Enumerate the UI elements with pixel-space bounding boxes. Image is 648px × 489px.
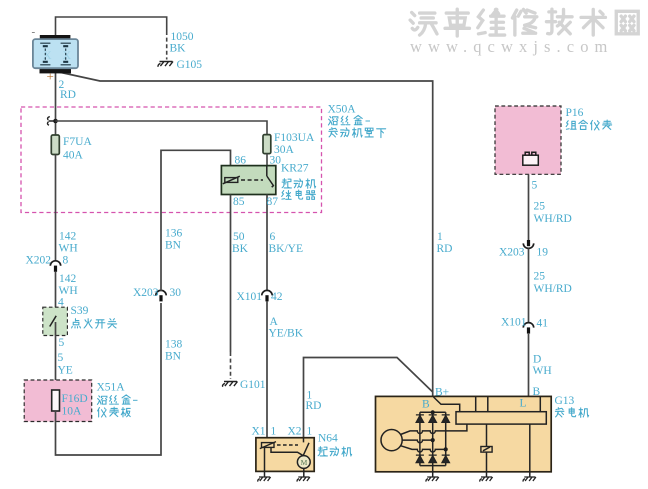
svg-text:X202: X202 xyxy=(26,255,52,267)
generator ground stub 1 xyxy=(432,472,434,477)
wire S39 to fuse F16D xyxy=(55,322,57,390)
phase wire top xyxy=(401,424,467,434)
svg-text:A: A xyxy=(270,316,279,328)
generator G13 box xyxy=(376,396,552,471)
svg-text:50: 50 xyxy=(233,231,245,243)
fuse F16D 10A xyxy=(52,390,60,411)
svg-text:X: X xyxy=(63,48,72,62)
wire starter X2 loop to B+ node xyxy=(304,358,433,439)
wire X101-42 to starter X1 xyxy=(266,302,268,443)
svg-text:F7UA: F7UA xyxy=(63,136,92,148)
junction node in X50A xyxy=(53,119,58,124)
svg-text:L: L xyxy=(520,398,527,410)
wire relay pin 85 to G101 xyxy=(230,195,232,353)
svg-text:42: 42 xyxy=(271,291,283,303)
battery G? top left xyxy=(32,26,79,84)
svg-text:BK/YE: BK/YE xyxy=(269,243,304,255)
svg-text:F103UA: F103UA xyxy=(274,132,315,144)
wire relay pin 87 to X101-42 xyxy=(266,195,268,292)
svg-text:D: D xyxy=(533,354,541,366)
svg-text:YE/BK: YE/BK xyxy=(269,328,304,340)
svg-text:G13: G13 xyxy=(555,395,575,407)
starter N64 box xyxy=(256,438,314,472)
svg-text:RD: RD xyxy=(306,400,322,412)
svg-text:BN: BN xyxy=(165,240,182,252)
svg-text:5: 5 xyxy=(59,337,65,349)
fusebox X50A dashed outline xyxy=(21,107,322,213)
wire battery positive down to fusebox junction xyxy=(55,70,57,135)
wire junction to fuse F103UA xyxy=(56,121,268,135)
wire X101-41 to generator L xyxy=(528,334,530,412)
phase wire bottom xyxy=(401,446,447,452)
connector X101 pin 41 xyxy=(523,323,533,334)
battery telltale icon xyxy=(523,152,539,165)
wire X203-30 up to relay pin 86 xyxy=(161,150,231,291)
ground G101 xyxy=(223,382,238,387)
svg-text:www.qcwxjs.com: www.qcwxjs.com xyxy=(410,37,613,56)
svg-text:X51A: X51A xyxy=(97,382,126,394)
diodes top row xyxy=(416,415,450,423)
connector X203 pin 19 (pin above, arc below) xyxy=(523,240,533,248)
diode bridge top bus xyxy=(420,411,446,413)
stub connector at junction xyxy=(47,117,53,126)
phase wire middle xyxy=(402,440,433,443)
svg-text:B+: B+ xyxy=(435,387,449,399)
wire fuse F7UA to connector X202 xyxy=(55,155,57,262)
starter dashed link xyxy=(277,444,298,446)
svg-text:X101: X101 xyxy=(237,291,263,303)
svg-text:-: - xyxy=(32,26,36,38)
svg-text:6: 6 xyxy=(270,231,276,243)
connector X101 pin 42 xyxy=(262,290,272,301)
watermark 汽车维修技术网 xyxy=(410,9,638,36)
svg-text:X203: X203 xyxy=(133,287,159,299)
svg-text:30: 30 xyxy=(170,287,182,299)
svg-text:86: 86 xyxy=(235,155,247,167)
svg-text:WH: WH xyxy=(59,285,78,297)
connector X203 pin 30 xyxy=(156,290,166,301)
svg-text:X2: X2 xyxy=(288,426,302,438)
wire battery feed diagonal to B+ rail xyxy=(57,72,433,413)
svg-text:F16D: F16D xyxy=(62,393,88,405)
svg-text:8: 8 xyxy=(63,255,69,267)
generator stator circle xyxy=(381,430,402,451)
B+ internal link to regulator xyxy=(434,397,460,412)
svg-text:142: 142 xyxy=(59,231,77,243)
svg-text:BK: BK xyxy=(232,243,249,255)
starter motor M xyxy=(297,456,310,469)
svg-text:25: 25 xyxy=(534,271,546,283)
svg-text:1050: 1050 xyxy=(171,31,194,43)
ignition switch S39 box xyxy=(43,307,68,335)
svg-text:5: 5 xyxy=(58,352,64,364)
regulator bar xyxy=(456,412,546,424)
fuse F7UA 40A xyxy=(51,135,59,155)
svg-text:5: 5 xyxy=(532,180,538,192)
starter switch arm xyxy=(303,438,309,456)
svg-text:10A: 10A xyxy=(62,406,83,418)
svg-text:M: M xyxy=(301,458,308,467)
wire F16D down and across to X203 xyxy=(56,303,162,455)
ground stub starter X2 side xyxy=(303,472,305,477)
svg-text:G105: G105 xyxy=(177,59,203,71)
svg-text:BN: BN xyxy=(165,351,182,363)
wire F103UA to relay pin 30 xyxy=(266,154,268,166)
starter internal link coil to motor xyxy=(271,447,304,455)
svg-text:19: 19 xyxy=(537,247,549,259)
svg-text:87: 87 xyxy=(267,196,279,208)
svg-text:85: 85 xyxy=(233,196,245,208)
generator L column xyxy=(529,424,531,471)
svg-text:1: 1 xyxy=(271,426,277,438)
generator ground stub 2 xyxy=(486,472,488,477)
regulator top tabs xyxy=(476,397,541,412)
ground stub starter X1 side xyxy=(264,472,266,477)
svg-text:X50A: X50A xyxy=(328,104,357,116)
svg-text:RD: RD xyxy=(437,243,453,255)
svg-text:N64: N64 xyxy=(318,433,338,445)
wire X203-19 to X101-41 xyxy=(528,249,530,324)
svg-text:S39: S39 xyxy=(71,305,89,317)
wire X202 to ignition switch S39 xyxy=(55,272,57,318)
generator ground stub 3 xyxy=(529,472,531,477)
svg-text:X1: X1 xyxy=(252,426,266,438)
svg-text:KR27: KR27 xyxy=(281,163,309,175)
svg-text:WH: WH xyxy=(59,243,78,255)
svg-text:136: 136 xyxy=(165,228,183,240)
resistor in generator xyxy=(486,424,488,446)
relay dashed link xyxy=(241,179,263,181)
svg-text:G101: G101 xyxy=(240,379,266,391)
diodes bottom row xyxy=(416,455,450,463)
svg-text:138: 138 xyxy=(165,339,183,351)
svg-text:X203: X203 xyxy=(499,247,525,259)
svg-text:142: 142 xyxy=(59,273,77,285)
svg-text:RD: RD xyxy=(60,89,76,101)
relay switch arm 30-87 xyxy=(267,166,274,187)
relay coil xyxy=(225,178,238,183)
svg-text:BK: BK xyxy=(170,43,187,55)
fusebox X51A dashed outline xyxy=(24,380,92,422)
svg-text:4: 4 xyxy=(58,297,64,309)
svg-text:B: B xyxy=(422,399,430,411)
svg-text:25: 25 xyxy=(534,201,546,213)
svg-text:1: 1 xyxy=(307,426,313,438)
svg-text:40A: 40A xyxy=(63,150,84,162)
svg-text:WH: WH xyxy=(533,365,552,377)
bottom bus xyxy=(420,465,446,467)
ground G105 xyxy=(158,62,173,67)
svg-text:WH/RD: WH/RD xyxy=(534,283,572,295)
wire 1050 BK dashed to ground xyxy=(166,31,168,60)
fuse F103UA 30A xyxy=(263,135,271,154)
wire P16 pin 5 down to X203-19 xyxy=(528,174,530,240)
switch S39 contact arm xyxy=(50,316,57,327)
svg-text:WH/RD: WH/RD xyxy=(534,213,572,225)
starter solenoid to ground wire xyxy=(264,447,266,471)
svg-text:P16: P16 xyxy=(566,107,584,119)
svg-text:1: 1 xyxy=(437,231,443,243)
svg-text:B: B xyxy=(533,386,541,398)
svg-text:41: 41 xyxy=(537,318,549,330)
connector X202 pin 8 xyxy=(50,261,60,272)
wire battery negative to G105 xyxy=(56,17,167,37)
relay KR27 box xyxy=(221,166,275,195)
svg-text:30: 30 xyxy=(270,155,282,167)
starter solenoid coil xyxy=(262,443,275,448)
svg-text:+: + xyxy=(47,69,54,84)
svg-text:X: X xyxy=(43,48,52,62)
svg-text:YE: YE xyxy=(58,365,73,377)
diode bridge columns xyxy=(420,412,446,471)
svg-text:X101: X101 xyxy=(501,317,527,329)
instrument cluster P16 box xyxy=(495,106,561,174)
